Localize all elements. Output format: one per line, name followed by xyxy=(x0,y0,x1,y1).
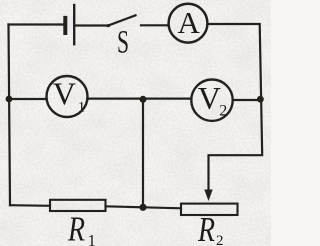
svg-text:V: V xyxy=(198,80,221,116)
svg-text:R: R xyxy=(67,210,85,246)
svg-text:S: S xyxy=(117,25,129,61)
svg-text:1: 1 xyxy=(88,231,96,246)
svg-text:2: 2 xyxy=(219,103,227,120)
svg-text:A: A xyxy=(178,5,201,40)
svg-text:2: 2 xyxy=(216,233,224,246)
svg-text:R: R xyxy=(197,210,215,246)
svg-text:V: V xyxy=(53,75,76,111)
svg-text:1: 1 xyxy=(78,100,86,116)
